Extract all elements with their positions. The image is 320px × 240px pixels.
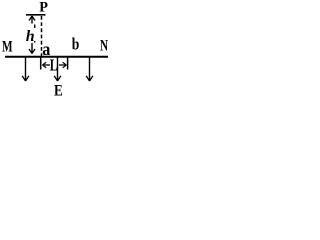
- svg-text:E: E: [54, 82, 63, 98]
- svg-text:h: h: [26, 28, 35, 45]
- svg-text:b: b: [72, 35, 80, 54]
- svg-text:L: L: [50, 56, 58, 75]
- svg-text:P: P: [39, 0, 48, 16]
- svg-text:M: M: [2, 38, 13, 55]
- svg-text:N: N: [100, 37, 108, 54]
